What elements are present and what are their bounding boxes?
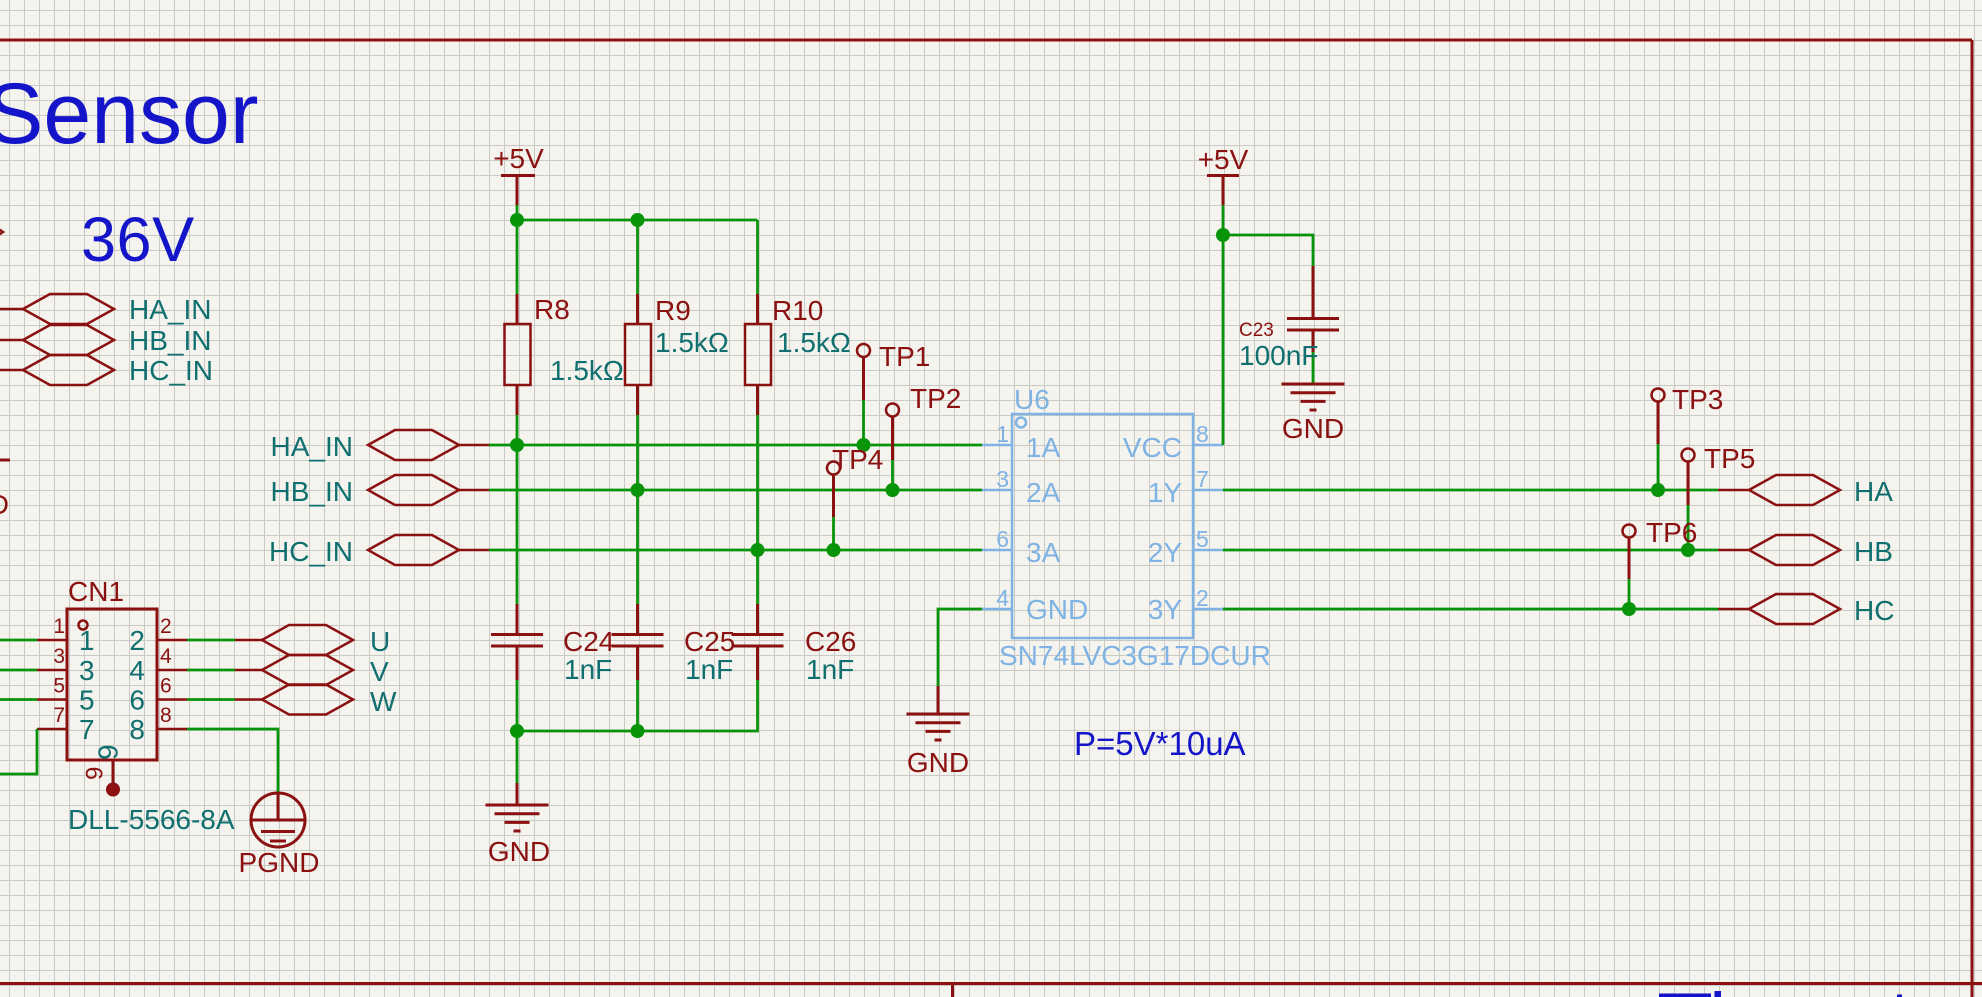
svg-text:1: 1 bbox=[996, 421, 1009, 447]
junction HC row at TP6 bbox=[1622, 602, 1636, 616]
svg-text:R9: R9 bbox=[655, 295, 691, 326]
wire R8 to HA row bbox=[516, 415, 519, 445]
svg-text:TP4: TP4 bbox=[832, 444, 883, 475]
svg-text:4: 4 bbox=[996, 585, 1009, 611]
resistor R8 bbox=[505, 294, 624, 415]
wire TP1 to HA row bbox=[862, 400, 865, 445]
svg-text:100nF: 100nF bbox=[1239, 340, 1318, 371]
svg-text:GND: GND bbox=[1026, 594, 1088, 625]
svg-text:7: 7 bbox=[79, 714, 95, 745]
power flag +5V (left) bbox=[493, 143, 544, 205]
svg-text:HC_IN: HC_IN bbox=[129, 355, 213, 386]
svg-text:2: 2 bbox=[129, 625, 145, 656]
svg-text:5: 5 bbox=[1196, 526, 1209, 552]
svg-text:C25: C25 bbox=[684, 626, 735, 657]
svg-text:TP5: TP5 bbox=[1704, 443, 1755, 474]
svg-text:1: 1 bbox=[53, 615, 65, 638]
ground GND (U6 pin4) bbox=[907, 686, 970, 778]
CN1 pin 4 stub bbox=[157, 669, 187, 672]
wire to CN1 pin 5 bbox=[0, 698, 37, 701]
HA port stub bbox=[1718, 489, 1749, 492]
svg-text:HB_IN: HB_IN bbox=[129, 325, 211, 356]
op-amp/buffer U6 body bbox=[1012, 414, 1193, 638]
connector CN1 body bbox=[67, 609, 157, 760]
wire +5V to C23 bbox=[1223, 235, 1313, 266]
junction bus at C25 bbox=[631, 724, 645, 738]
svg-text:GND: GND bbox=[907, 747, 969, 778]
capacitor C25 bbox=[612, 604, 736, 685]
svg-text:2: 2 bbox=[160, 615, 172, 638]
svg-text:2: 2 bbox=[1196, 585, 1209, 611]
wire HA row down to C24 bbox=[516, 445, 519, 604]
capacitor C24 bbox=[491, 604, 614, 685]
CN1 pin 2 stub bbox=[157, 639, 187, 642]
svg-text:6: 6 bbox=[160, 675, 172, 698]
wire HB row down to C25 bbox=[636, 490, 639, 604]
clipped symbol arrow at left edge bbox=[0, 226, 3, 238]
svg-text:TP2: TP2 bbox=[910, 383, 961, 414]
junction rail at R9 bbox=[631, 213, 645, 227]
svg-text:TP3: TP3 bbox=[1672, 384, 1723, 415]
net port HC_IN (mid) bbox=[368, 535, 459, 565]
U6 pin-1 indicator circle bbox=[1016, 418, 1026, 428]
net port HA_IN (mid) bbox=[368, 430, 459, 460]
svg-text:1nF: 1nF bbox=[685, 654, 733, 685]
wire C25 to gnd bus bbox=[636, 680, 639, 731]
HC_IN port stub bbox=[459, 549, 489, 552]
junction HC row at R10 bbox=[751, 543, 765, 557]
test point TP2 bbox=[886, 383, 961, 460]
svg-text:3Y: 3Y bbox=[1148, 594, 1183, 625]
SECTION: midrows bbox=[269, 341, 982, 567]
net port HB bbox=[1749, 535, 1840, 565]
svg-text:4: 4 bbox=[129, 655, 145, 686]
wire TP5 to HB row bbox=[1687, 505, 1690, 550]
svg-text:3: 3 bbox=[79, 655, 95, 686]
U6 pin 6 stub bbox=[982, 549, 1012, 552]
wire to CN1 pin 7 bbox=[0, 729, 37, 774]
svg-text:4: 4 bbox=[160, 645, 172, 668]
wire pin4 to V port bbox=[187, 669, 235, 672]
net port HC_IN (top-left) bbox=[23, 355, 114, 385]
svg-text:HC: HC bbox=[1854, 595, 1894, 626]
wire HB row bbox=[489, 489, 982, 492]
CN1 pin 9 terminal dot bbox=[106, 783, 120, 797]
frame right border line bbox=[1971, 40, 1974, 997]
svg-text:C23: C23 bbox=[1239, 320, 1274, 341]
CN1 pin 1 stub bbox=[37, 639, 67, 642]
net port HB_IN (mid) bbox=[368, 475, 459, 505]
svg-text:1: 1 bbox=[79, 625, 95, 656]
test point TP3 bbox=[1652, 384, 1724, 444]
net port HC bbox=[1749, 594, 1840, 624]
svg-text:7: 7 bbox=[53, 704, 65, 727]
svg-text:VCC: VCC bbox=[1123, 432, 1182, 463]
svg-text:9: 9 bbox=[82, 767, 109, 780]
wire stub to HC_IN port (top-left) bbox=[0, 369, 23, 372]
resistor R9 bbox=[625, 294, 729, 415]
svg-text:GND: GND bbox=[0, 489, 9, 520]
power flag +5V (right) bbox=[1198, 144, 1249, 205]
HC port stub bbox=[1718, 608, 1749, 611]
test point TP1 bbox=[857, 341, 930, 400]
SECTION: ic bbox=[907, 144, 1345, 778]
U6 pin 1 stub bbox=[982, 444, 1012, 447]
svg-text:3A: 3A bbox=[1026, 537, 1061, 568]
wire +5V down to VCC pin bbox=[1222, 205, 1225, 445]
wire to CN1 pin 3 bbox=[0, 669, 37, 672]
U6 pin 3 stub bbox=[982, 489, 1012, 492]
U6 pin 5 stub bbox=[1193, 549, 1223, 552]
wire pin2 to U port bbox=[187, 639, 235, 642]
wire stub to HA_IN port (top-left) bbox=[0, 308, 23, 311]
wire TP2 to HB row bbox=[891, 460, 894, 490]
svg-text:6: 6 bbox=[129, 685, 145, 716]
test point TP6 bbox=[1623, 517, 1698, 579]
wire TP4 to HC row bbox=[832, 517, 835, 550]
svg-text:5: 5 bbox=[53, 675, 65, 698]
U6 pin 7 stub bbox=[1193, 489, 1223, 492]
svg-text:R10: R10 bbox=[772, 295, 823, 326]
wire gnd bus bbox=[517, 680, 758, 731]
svg-text:8: 8 bbox=[1196, 421, 1209, 447]
resistor R10 bbox=[745, 294, 851, 415]
CN1 pin 7 stub bbox=[37, 728, 67, 731]
SECTION: leftflags bbox=[0, 294, 213, 386]
wire C24 to gnd bus bbox=[516, 680, 519, 731]
U port stub bbox=[235, 639, 262, 642]
svg-text:2A: 2A bbox=[1026, 477, 1061, 508]
svg-text:CN1: CN1 bbox=[68, 576, 124, 607]
svg-text:1.5kΩ: 1.5kΩ bbox=[550, 355, 624, 386]
wire rail down to R8 bbox=[516, 220, 519, 294]
SECTION: cn1 bbox=[0, 576, 397, 878]
CN1 pin 6 stub bbox=[157, 698, 187, 701]
svg-text:8: 8 bbox=[160, 704, 172, 727]
svg-text:8: 8 bbox=[129, 714, 145, 745]
svg-text:1.5kΩ: 1.5kΩ bbox=[777, 327, 851, 358]
U6 pin 8 stub bbox=[1193, 444, 1223, 447]
svg-text:PGND: PGND bbox=[239, 847, 320, 878]
svg-text:+5V: +5V bbox=[1198, 144, 1249, 175]
svg-text:3: 3 bbox=[996, 466, 1009, 492]
svg-text:TP1: TP1 bbox=[879, 341, 930, 372]
svg-text:HB_IN: HB_IN bbox=[271, 476, 353, 507]
SECTION: right bbox=[1223, 384, 1894, 626]
test point TP5 bbox=[1682, 443, 1756, 505]
wire pin6 to W port bbox=[187, 698, 235, 701]
title-block clipped blue text at bottom edge bbox=[1659, 991, 1902, 997]
HB_IN port stub bbox=[459, 489, 489, 492]
svg-text:HC_IN: HC_IN bbox=[269, 536, 353, 567]
svg-text:1Y: 1Y bbox=[1148, 477, 1183, 508]
junction HA row at R8 bbox=[510, 438, 524, 452]
U6 pin 2 stub bbox=[1193, 608, 1223, 611]
svg-text:1.5kΩ: 1.5kΩ bbox=[655, 327, 729, 358]
svg-text:6: 6 bbox=[996, 526, 1009, 552]
svg-text:HA: HA bbox=[1854, 476, 1893, 507]
CN1 pin 3 stub bbox=[37, 669, 67, 672]
svg-text:DLL-5566-8A: DLL-5566-8A bbox=[68, 804, 235, 835]
svg-text:C26: C26 bbox=[805, 626, 856, 657]
svg-text:1A: 1A bbox=[1026, 432, 1061, 463]
CN1 pin 5 stub bbox=[37, 698, 67, 701]
ground GND (C23) bbox=[1282, 384, 1345, 444]
wire rail down to R10 bbox=[756, 220, 759, 294]
wire stub to HB_IN port (top-left) bbox=[0, 339, 23, 342]
junction HB row at R9 bbox=[631, 483, 645, 497]
wire R9 to HB row bbox=[636, 415, 639, 490]
CN1 pin-1 indicator circle bbox=[79, 621, 88, 630]
svg-text:U6: U6 bbox=[1014, 384, 1050, 415]
wire 3Y to HC port bbox=[1223, 608, 1718, 611]
wire pin8 to PGND bbox=[187, 729, 278, 793]
junction HB row at TP5 bbox=[1681, 543, 1695, 557]
wire TP6 to HC row bbox=[1628, 579, 1631, 609]
junction HC row at TP4 bbox=[827, 543, 841, 557]
svg-text:7: 7 bbox=[1196, 466, 1209, 492]
wire +5V rail bbox=[517, 219, 758, 222]
frame top border line bbox=[0, 39, 1972, 42]
net port V bbox=[262, 655, 353, 685]
test point TP4 bbox=[827, 444, 883, 517]
junction HA row at TP3 bbox=[1651, 483, 1665, 497]
W port stub bbox=[235, 698, 262, 701]
HA_IN port stub bbox=[459, 444, 489, 447]
HB port stub bbox=[1718, 549, 1749, 552]
SECTION: titles bbox=[0, 66, 1246, 762]
svg-text:3: 3 bbox=[53, 645, 65, 668]
net port HA bbox=[1749, 475, 1840, 505]
clipped power bar at left edge bbox=[0, 459, 10, 462]
wire HA row bbox=[489, 444, 982, 447]
wire rail down to R9 bbox=[636, 220, 639, 294]
wire TP3 to HA row bbox=[1657, 444, 1660, 490]
junction HB row at TP2 bbox=[886, 483, 900, 497]
svg-text:36V: 36V bbox=[81, 205, 195, 275]
svg-text:HA_IN: HA_IN bbox=[271, 431, 353, 462]
U6 pin 4 stub bbox=[982, 608, 1012, 611]
svg-text:C24: C24 bbox=[563, 626, 614, 657]
junction bus at C24 bbox=[510, 724, 524, 738]
wire bus down to GND bbox=[516, 731, 519, 783]
wire 1Y to HA port bbox=[1223, 489, 1718, 492]
wire to CN1 pin 1 bbox=[0, 639, 37, 642]
svg-text:GND: GND bbox=[1282, 413, 1344, 444]
frame bottom border line bbox=[0, 982, 1982, 985]
net port HA_IN (top-left) bbox=[23, 294, 114, 324]
wire HC row down to C26 bbox=[756, 550, 759, 604]
frame title-block divider bbox=[951, 984, 954, 997]
net port U bbox=[262, 625, 353, 655]
svg-text:SN74LVC3G17DCUR: SN74LVC3G17DCUR bbox=[999, 640, 1271, 671]
wire +5V to rail bbox=[516, 205, 519, 220]
junction rail at R8 bbox=[510, 213, 524, 227]
svg-text:TP6: TP6 bbox=[1646, 517, 1697, 548]
svg-text:2Y: 2Y bbox=[1148, 537, 1183, 568]
svg-text:V: V bbox=[370, 656, 389, 687]
net port HB_IN (top-left) bbox=[23, 325, 114, 355]
junction +5V at C23 branch bbox=[1216, 228, 1230, 242]
svg-text:1nF: 1nF bbox=[806, 654, 854, 685]
junction HA row at TP1 bbox=[857, 438, 871, 452]
svg-text:W: W bbox=[370, 686, 397, 717]
svg-text:5: 5 bbox=[79, 685, 95, 716]
V port stub bbox=[235, 669, 262, 672]
CN1 pin 9 stub bbox=[112, 760, 115, 783]
SECTION: pullups bbox=[486, 143, 857, 867]
net port W bbox=[262, 685, 353, 715]
svg-text:P=5V*10uA: P=5V*10uA bbox=[1074, 725, 1246, 762]
wire U6 pin4 to GND bbox=[938, 609, 982, 686]
svg-text:U: U bbox=[370, 626, 390, 657]
ground GND (below C24) bbox=[486, 783, 551, 867]
svg-text:Sensor: Sensor bbox=[0, 66, 259, 162]
svg-text:+5V: +5V bbox=[493, 143, 544, 174]
svg-text:HA_IN: HA_IN bbox=[129, 294, 211, 325]
wire R10 to HC row bbox=[756, 415, 759, 550]
svg-text:GND: GND bbox=[488, 836, 550, 867]
capacitor C23 bbox=[1239, 266, 1339, 384]
svg-text:R8: R8 bbox=[534, 294, 570, 325]
svg-text:1nF: 1nF bbox=[564, 654, 612, 685]
earth symbol PGND bbox=[251, 793, 305, 847]
wire 2Y to HB port bbox=[1223, 549, 1718, 552]
svg-text:9: 9 bbox=[93, 744, 124, 760]
svg-text:HB: HB bbox=[1854, 536, 1893, 567]
wire HC row bbox=[489, 549, 982, 552]
CN1 pin 8 stub bbox=[157, 728, 187, 731]
capacitor C26 bbox=[732, 604, 857, 685]
